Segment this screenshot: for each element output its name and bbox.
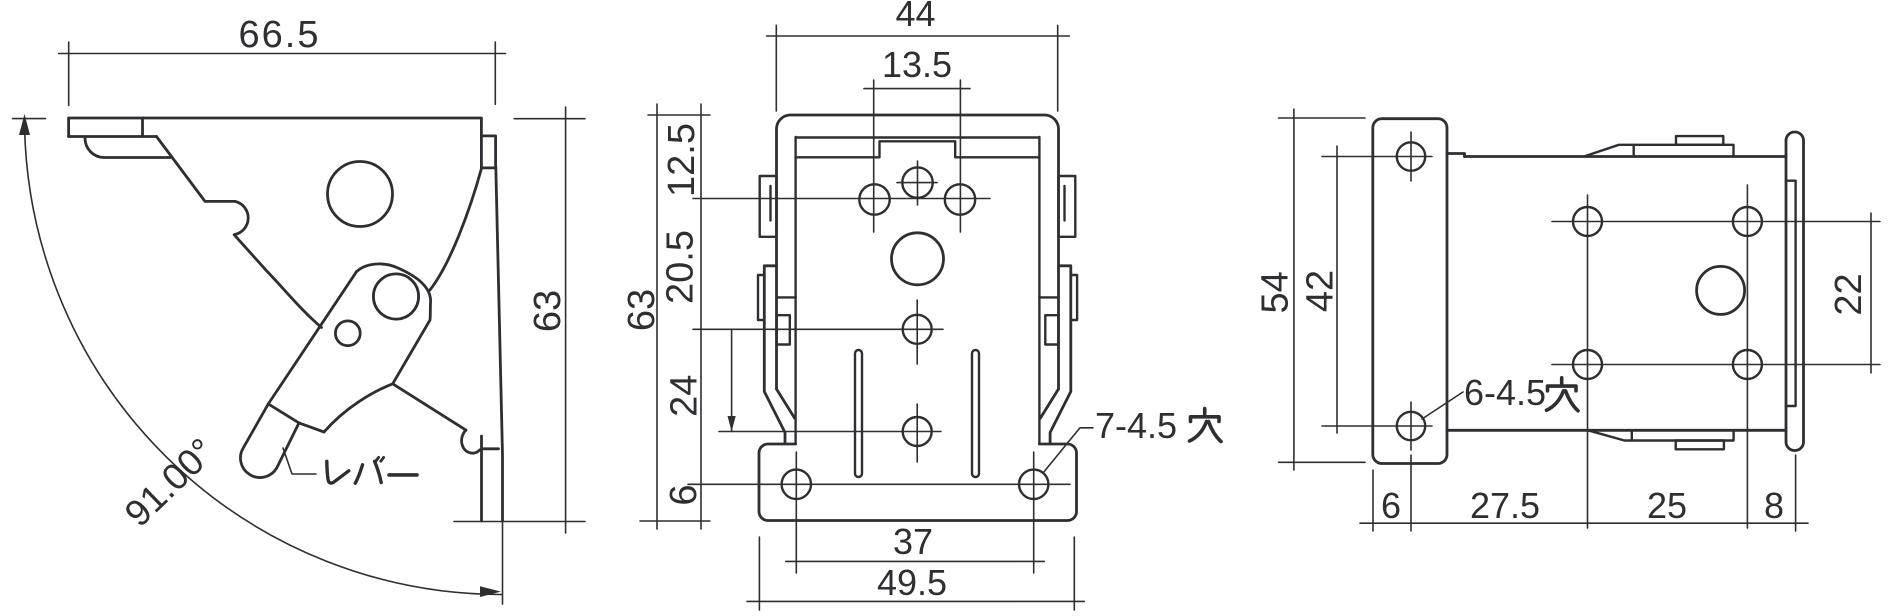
bracket side tab top right [481, 136, 495, 168]
bracket finger notch [234, 201, 268, 272]
bottom plate hole left [782, 470, 811, 499]
plate hole bottom left [1573, 350, 1602, 379]
centerline top hole row [1552, 221, 1880, 223]
main plate bottom edge [1447, 429, 1786, 432]
hole row1 right [945, 184, 975, 214]
svg-text:42: 42 [1299, 270, 1341, 312]
horizontal crosshair row1 center hole [897, 182, 937, 184]
left side tab upper [760, 176, 777, 237]
right flange inner seam [1786, 181, 1796, 406]
bracket left diagonal edge [157, 137, 236, 202]
dimension 63 (left view right side) [454, 107, 585, 533]
svg-text:12.5: 12.5 [661, 123, 703, 197]
lever sleeve tip [240, 404, 299, 478]
bracket upper fan arc [430, 168, 482, 290]
left bend line [794, 137, 796, 444]
centerline bottom holes [688, 483, 1070, 485]
vertical centerline lower hole [916, 404, 918, 462]
svg-text:44: 44 [895, 0, 935, 34]
top raised strip [1584, 136, 1734, 156]
lever small hole [335, 321, 360, 346]
left dimension chain lines [640, 104, 732, 529]
plate hole bottom right [1733, 350, 1762, 379]
svg-text:22: 22 [1828, 273, 1870, 315]
bracket fan lower arc right of lever [324, 384, 393, 432]
plate outer outline with rounded top corners [777, 115, 1059, 389]
vertical centerline middle hole [916, 300, 918, 364]
right side tab upper [1059, 176, 1076, 237]
bottom mounting plate (top edge hidden behind face in the middle) [759, 444, 1077, 521]
svg-text:37: 37 [893, 521, 933, 562]
arrowhead arc top [19, 114, 30, 135]
hole top in mounting plate [1397, 142, 1425, 170]
plate hole top left [1573, 207, 1602, 236]
svg-text:6-4.5: 6-4.5 [1464, 372, 1546, 413]
svg-text:49.5: 49.5 [877, 562, 947, 603]
main plate top edge [1465, 155, 1787, 158]
right bend line [1038, 137, 1040, 444]
arrowhead sub dimension [728, 416, 736, 432]
inner top edge [796, 138, 1040, 158]
svg-text:63: 63 [621, 289, 663, 331]
vertical centerline row1 center hole [917, 161, 919, 205]
svg-text:8: 8 [1764, 485, 1784, 526]
hole row1 center [902, 167, 932, 197]
svg-text:25: 25 [1647, 485, 1687, 526]
bracket top band outline [69, 118, 482, 137]
middle hole [903, 315, 932, 344]
svg-text:6: 6 [663, 484, 705, 505]
hole row1 left [859, 184, 889, 214]
dimension 22 [1870, 213, 1872, 373]
leader line lever label [283, 448, 316, 474]
centerline lower hole [719, 431, 941, 433]
dimension 42 [1336, 146, 1338, 433]
bracket lower concave edge to lever [268, 272, 322, 328]
svg-text:13.5: 13.5 [882, 44, 952, 85]
bracket large hole [328, 162, 393, 227]
centerline hole row1 [693, 198, 990, 200]
extension line below flange for angle arc [502, 522, 504, 604]
svg-text:20.5: 20.5 [660, 230, 702, 304]
svg-text:27.5: 27.5 [1470, 485, 1540, 526]
mounting plate edge-on [1373, 119, 1447, 464]
large hole right view [1697, 266, 1745, 314]
extension line top left for angle arc [13, 118, 46, 120]
hole bottom in mounting plate [1397, 412, 1425, 440]
vertical centerline bottom hole right [1033, 452, 1035, 573]
svg-text:66.5: 66.5 [239, 14, 321, 56]
lever arm end under sleeve [299, 423, 324, 432]
dimension 66.5 [59, 42, 506, 106]
leader line 6-4.5 holes [1422, 392, 1463, 419]
svg-text:24: 24 [664, 375, 706, 417]
slot left [855, 350, 862, 477]
crosshair mounting hole bottom [1322, 402, 1432, 450]
vertical centerline right holes [1746, 185, 1748, 528]
svg-text:54: 54 [1254, 271, 1296, 313]
centerline bottom hole row [1552, 364, 1880, 366]
plate hole top right [1733, 207, 1762, 236]
bracket flange edge right [496, 166, 503, 520]
bracket foot lower right [393, 384, 499, 521]
bottom dimension line right view [1360, 455, 1808, 531]
lever pivot circle [373, 274, 418, 319]
bottom raised strip [1588, 430, 1734, 449]
bottom plate hole right [1019, 470, 1048, 499]
left flange outer edge and bevel [764, 266, 794, 444]
svg-text:7-4.5: 7-4.5 [1095, 405, 1177, 446]
text lever label (katakana drawn as paths) [327, 457, 417, 483]
left side tab lower [758, 275, 796, 345]
vertical centerline left holes [1587, 195, 1589, 528]
arrowhead arc bottom [480, 586, 501, 597]
right flange outer edge and bevel [1040, 266, 1071, 444]
bracket lip under band [85, 138, 171, 158]
step notch near plate top [1447, 154, 1465, 157]
svg-text:63: 63 [527, 290, 569, 332]
dimension 44 [767, 25, 1070, 111]
svg-text:6: 6 [1381, 485, 1401, 526]
leader line 7-4.5 holes [1043, 428, 1093, 473]
crosshair mounting hole top [1322, 132, 1432, 181]
dimension 49.5 [747, 537, 1084, 610]
centerline middle hole [693, 328, 943, 330]
right flange edge-on [1786, 132, 1804, 451]
lever body [268, 264, 430, 404]
slot right [972, 350, 979, 477]
dimension 13.5 [864, 80, 970, 232]
vertical centerline bottom hole left [795, 452, 797, 573]
angle arc 91.00 [25, 119, 502, 595]
lower hole [903, 417, 932, 446]
dimension 54 [1279, 109, 1366, 470]
large center hole [892, 233, 944, 285]
dimension 37 [786, 560, 1045, 562]
right side tab lower [1039, 275, 1077, 345]
